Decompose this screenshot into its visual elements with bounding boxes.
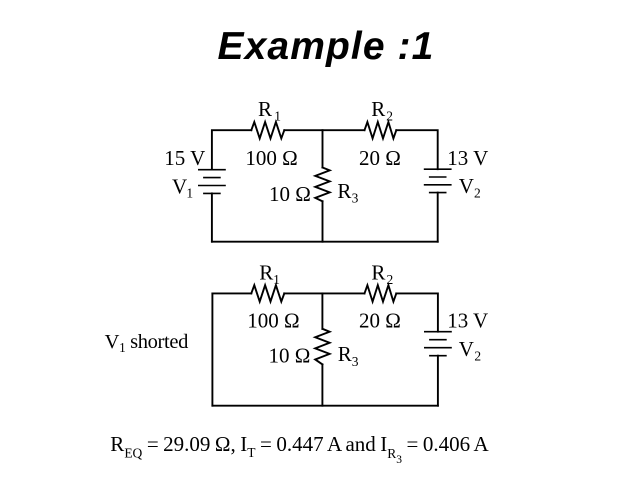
svg-text:V1 shorted: V1 shorted bbox=[105, 331, 188, 355]
svg-text:2: 2 bbox=[387, 272, 394, 287]
wire: right-lower segment bbox=[437, 193, 439, 242]
svg-text:100 Ω: 100 Ω bbox=[247, 309, 299, 333]
wire: bottom segment bbox=[212, 241, 438, 243]
resistor R3 (vertical zigzag, bottom circuit) bbox=[315, 329, 329, 365]
wire: left-lower segment bbox=[211, 193, 213, 241]
wire: top-left segment bbox=[212, 130, 251, 169]
svg-text:100 Ω: 100 Ω bbox=[245, 146, 297, 170]
svg-text:R: R bbox=[371, 97, 385, 121]
svg-text:2: 2 bbox=[474, 349, 481, 364]
svg-text:20 Ω: 20 Ω bbox=[359, 146, 401, 170]
svg-text:R: R bbox=[338, 342, 352, 366]
battery V2 plates (bottom circuit) bbox=[425, 332, 451, 356]
wire: top-left segment bbox=[212, 292, 251, 294]
svg-text:R: R bbox=[258, 97, 272, 121]
wire: top-middle segment bbox=[284, 129, 364, 131]
wire: bottom segment bbox=[212, 405, 438, 407]
svg-text:1: 1 bbox=[273, 272, 280, 287]
svg-text:REQ = 29.09 Ω, IT = 0.447 A an: REQ = 29.09 Ω, IT = 0.447 A and IR3 = 0.… bbox=[110, 432, 489, 466]
wire: middle-upper segment bbox=[322, 130, 324, 167]
resistor R1 (zigzag) bbox=[251, 122, 284, 138]
svg-text:Example :1: Example :1 bbox=[218, 25, 435, 68]
svg-text:10 Ω: 10 Ω bbox=[269, 182, 311, 206]
svg-text:2: 2 bbox=[474, 186, 481, 201]
svg-text:R: R bbox=[371, 261, 385, 285]
wire: top-right segment bbox=[396, 293, 438, 331]
wire: top-right segment bbox=[396, 130, 437, 169]
wire: right-lower segment bbox=[437, 356, 439, 406]
svg-text:15 V: 15 V bbox=[164, 146, 205, 170]
svg-text:1: 1 bbox=[274, 108, 281, 123]
battery V1 plates bbox=[199, 170, 225, 194]
svg-text:13 V: 13 V bbox=[447, 146, 488, 170]
svg-text:V: V bbox=[172, 175, 187, 199]
svg-text:1: 1 bbox=[186, 186, 193, 201]
svg-text:3: 3 bbox=[352, 190, 359, 205]
svg-text:20 Ω: 20 Ω bbox=[359, 309, 401, 333]
svg-text:13 V: 13 V bbox=[447, 308, 488, 332]
svg-text:V: V bbox=[459, 337, 474, 361]
wire: left side (V1 shorted) bbox=[211, 293, 213, 405]
resistor R2 (zigzag) bbox=[365, 122, 397, 138]
svg-text:10 Ω: 10 Ω bbox=[269, 344, 311, 368]
svg-text:2: 2 bbox=[386, 109, 393, 124]
wire: middle-upper segment bbox=[321, 293, 323, 328]
resistor R2 (zigzag, bottom circuit) bbox=[365, 285, 397, 301]
battery V2 plates bbox=[425, 169, 451, 192]
resistor R1 (zigzag, bottom circuit) bbox=[251, 285, 284, 301]
wire: middle-lower segment bbox=[322, 201, 324, 241]
wire: middle-lower segment bbox=[321, 364, 323, 405]
wire: top-middle segment bbox=[284, 292, 364, 294]
svg-text:V: V bbox=[459, 174, 474, 198]
svg-text:R: R bbox=[337, 179, 351, 203]
resistor R3 (vertical zigzag) bbox=[315, 168, 329, 202]
svg-text:R: R bbox=[259, 261, 273, 285]
svg-text:3: 3 bbox=[352, 354, 359, 369]
